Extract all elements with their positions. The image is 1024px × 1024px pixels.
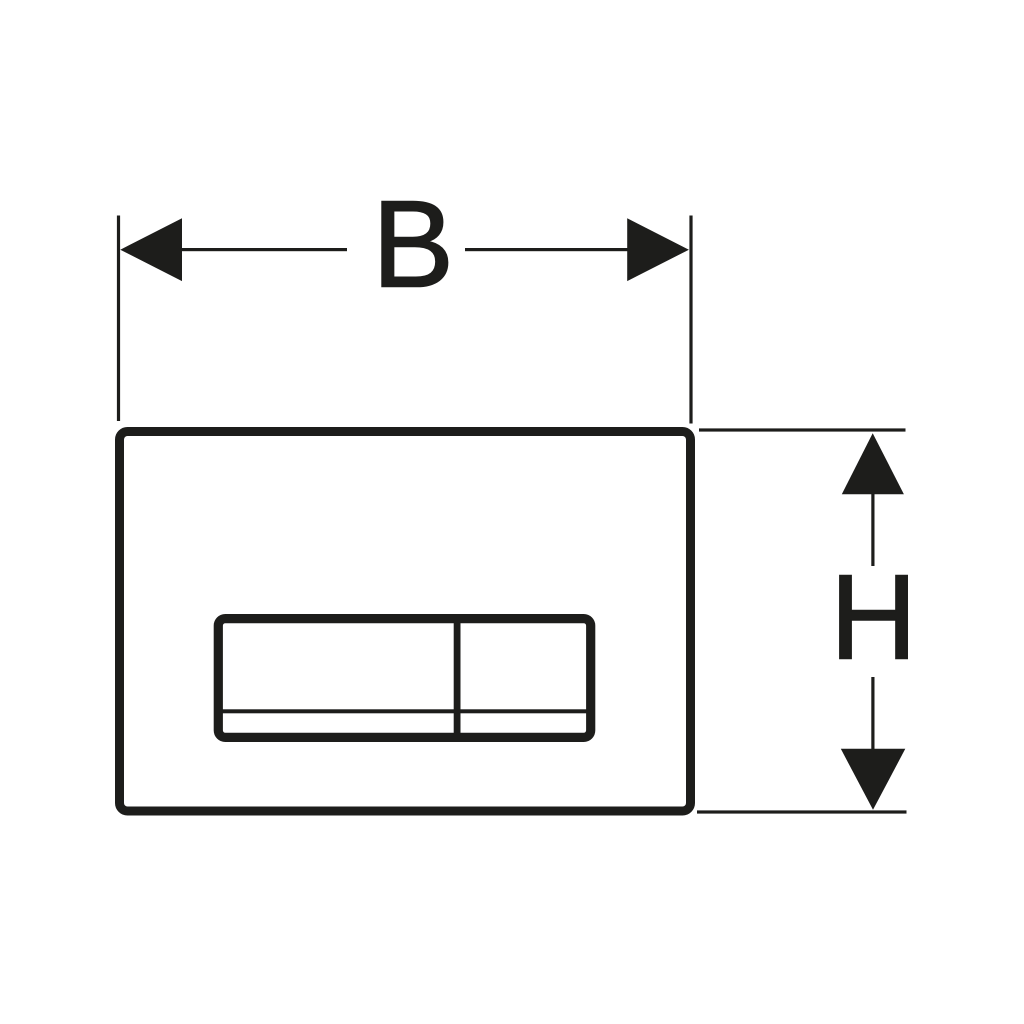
button panel rounded rectangle	[218, 619, 590, 738]
svg-text:H: H	[830, 550, 917, 685]
dimension H: top arrowhead	[842, 433, 904, 494]
button horizontal split line	[222, 709, 587, 713]
dimension B: line right segment	[465, 248, 629, 251]
button divider vertical bar	[454, 620, 461, 735]
dimension H: bottom extension line	[697, 810, 907, 813]
dimension H: line top segment	[871, 492, 874, 566]
flush plate outer rounded rectangle	[120, 432, 691, 812]
dimension H: top extension line	[699, 428, 906, 431]
dimension B: left arrowhead	[120, 218, 182, 281]
dimension H: line bottom segment	[871, 677, 874, 751]
dimension B: right arrowhead	[627, 218, 689, 281]
dimension B: left extension line	[117, 216, 120, 422]
dimension B: line left segment	[178, 248, 347, 251]
dimension H: bottom arrowhead	[841, 749, 906, 810]
dimension B: right extension line	[689, 216, 692, 424]
svg-text:B: B	[372, 177, 454, 314]
